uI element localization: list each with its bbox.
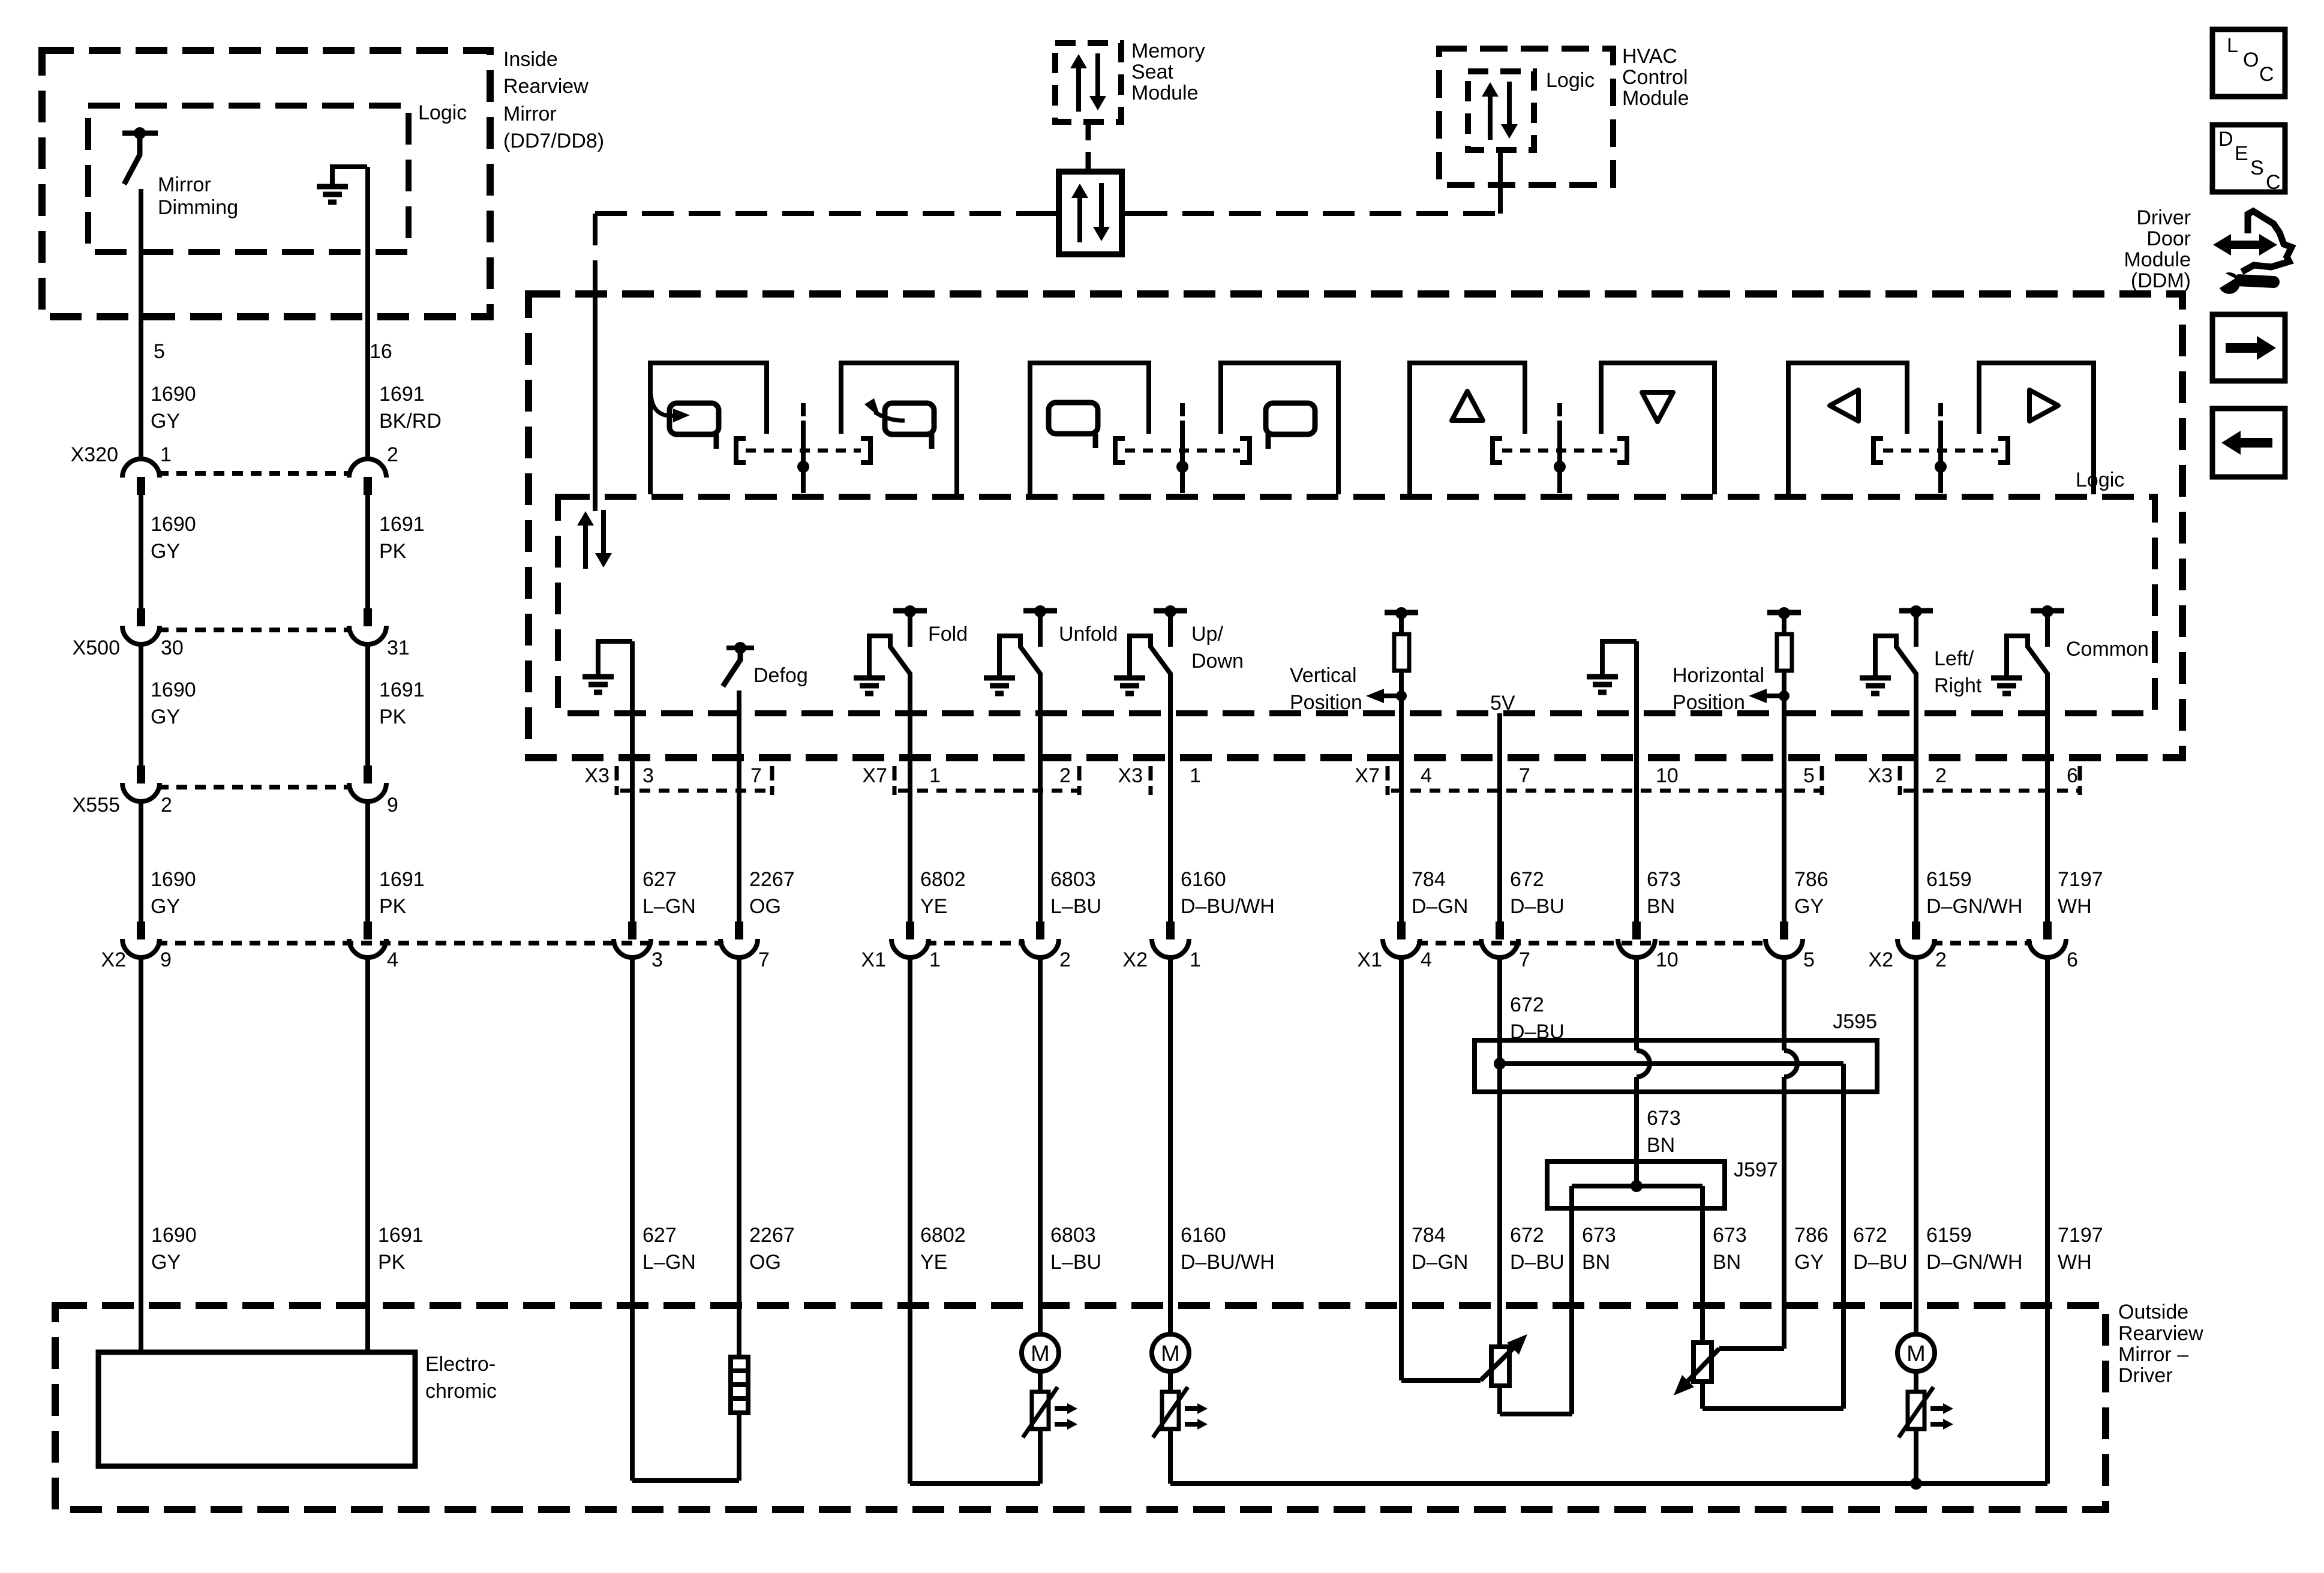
svg-text:2: 2 [1059, 948, 1071, 971]
svg-text:X7: X7 [862, 764, 887, 787]
connector X320 body (dotted) [158, 471, 351, 476]
svg-text:X1: X1 [1357, 948, 1382, 971]
inner logic box of DDM [558, 497, 2155, 713]
module box: Driver Door Module (DDM) [529, 294, 2182, 758]
module box: Inside Rearview Mirror (DD7/DD8) [42, 50, 490, 317]
ground symbol in DDM logic (627 return) [598, 641, 632, 677]
connector X1 terminal pin 1 [906, 921, 914, 939]
connector X2 terminal pin 1 [1166, 921, 1175, 939]
svg-text:2: 2 [387, 443, 398, 466]
svg-text:Common: Common [2066, 638, 2149, 661]
svg-text:9: 9 [160, 948, 172, 971]
svg-text:GY: GY [151, 1251, 181, 1274]
svg-text:6802: 6802 [920, 1224, 966, 1247]
serial data arrows inside connector box [1077, 196, 1082, 242]
svg-text:1690: 1690 [151, 1224, 197, 1247]
ground symbol inside IRM logic [332, 167, 367, 187]
connector X500 terminal pin 31 [364, 608, 372, 626]
svg-text:2: 2 [1935, 764, 1947, 787]
wire: 6803 unfold to X7 pin 2 [1038, 673, 1043, 923]
connector X1 body dotted (pins 4-7-10-5) [1417, 941, 1768, 945]
connector X555 terminal pin 9 [364, 766, 372, 784]
wire: serial data bus (dashed) memory seat to HVAC to DDM [595, 211, 1045, 216]
svg-text:6160: 6160 [1181, 1224, 1226, 1247]
wire: 627 from DDM logic ground to X3 pin 3 [630, 641, 635, 923]
node: junction of 6159 motor branch on common bus [1910, 1478, 1922, 1490]
svg-text:786: 786 [1794, 1224, 1828, 1247]
svg-text:WH: WH [2058, 895, 2092, 918]
svg-text:GY: GY [1794, 895, 1824, 918]
svg-text:Module: Module [1131, 82, 1199, 104]
wire: serial data drop from memory seat module (dashed) [1086, 122, 1091, 172]
connector X1 terminal pin 2 [1036, 921, 1044, 939]
svg-text:Unfold: Unfold [1059, 623, 1118, 646]
wire: 1691 PK to outside mirror [365, 959, 370, 1352]
svg-text:(DDM): (DDM) [2131, 269, 2191, 292]
icon box: right arrow [2212, 314, 2285, 381]
module box: HVAC Control Module [1439, 49, 1613, 185]
svg-text:C: C [2266, 171, 2281, 194]
svg-text:D–BU: D–BU [1510, 1251, 1565, 1274]
svg-text:(DD7/DD8): (DD7/DD8) [503, 130, 604, 152]
svg-text:BN: BN [1713, 1251, 1741, 1274]
wire: J595 output 672 D-BU down to horizontal pot low side [1841, 1064, 1846, 1409]
svg-text:E: E [2235, 142, 2248, 165]
potentiometer: horizontal position sensor [1694, 1343, 1712, 1382]
svg-text:OG: OG [749, 1251, 781, 1274]
svg-text:1691: 1691 [378, 1224, 424, 1247]
svg-text:6: 6 [2067, 948, 2078, 971]
svg-text:D: D [2218, 128, 2233, 151]
wire: 2267 defog output to X3 pin 7 [737, 691, 741, 923]
connector X7 (sensors) bracket [1386, 766, 1390, 795]
serial data arrows inside HVAC logic [1488, 94, 1493, 140]
svg-text:Right: Right [1934, 674, 1982, 697]
icon: down triangle (cell 6) [1642, 392, 1673, 422]
switch: Defog contact bar [726, 646, 754, 650]
svg-text:J595: J595 [1833, 1010, 1877, 1033]
wire: 673 BN from X1-10 to J597 (hops J595 bus) [1634, 959, 1639, 1050]
svg-text:chromic: chromic [425, 1380, 497, 1403]
connector X2 body dotted (pins 9-4-3-7) [157, 941, 723, 945]
splice pack J597 [1547, 1161, 1725, 1208]
switch cell: left mirror select switch cell [1030, 363, 1149, 494]
icon box: LOC [2212, 29, 2285, 97]
svg-text:Mirror: Mirror [158, 173, 211, 196]
switch cell: mirror fold switch cell (left mirror, fold arrow) [650, 363, 767, 494]
wire: left/right thermistor to common bus junction [1914, 1429, 1918, 1484]
svg-text:Mirror –: Mirror – [2118, 1343, 2188, 1366]
svg-text:9: 9 [387, 794, 398, 816]
icon: mirror glass left (cell 3) [1049, 403, 1098, 434]
wire: 786 GY to horizontal position wiper (hops J595 bus) [1782, 959, 1786, 1050]
wire: 1690 GY between X555 and X2 [139, 803, 143, 923]
connector X3 (right) body dotted [1903, 789, 2078, 793]
wire: 6803 L-BU to fold motor [1038, 959, 1043, 1334]
switch: Up/Down arm with ground [1130, 636, 1170, 678]
electrochromic mirror element [98, 1352, 415, 1466]
wire: 672 5V reference from DDM logic to X7 pin 7 [1497, 713, 1502, 923]
svg-text:L–GN: L–GN [642, 1251, 696, 1274]
wire: 2267 OG to defogger grid [737, 959, 741, 1357]
svg-text:673: 673 [1713, 1224, 1747, 1247]
wire: J595 internal bus [1500, 1061, 1843, 1066]
connector X3 (up/down) bracket [1149, 766, 1153, 795]
svg-text:1691: 1691 [379, 679, 425, 701]
module box: Outside Rearview Mirror - Driver [55, 1305, 2106, 1509]
svg-text:D–BU/WH: D–BU/WH [1181, 1251, 1275, 1274]
connector X2 terminal pin 6 [2043, 921, 2052, 939]
svg-text:GY: GY [151, 540, 180, 563]
svg-text:6159: 6159 [1926, 1224, 1972, 1247]
svg-text:Module: Module [1622, 87, 1689, 110]
wire: mirror dimming output, IRM pin 5 [139, 189, 143, 459]
sensor feed: vertical position fixed contact [1385, 610, 1418, 616]
connector X2 terminal pin 3 [628, 921, 636, 939]
inner logic box of HVAC control module [1468, 71, 1534, 150]
ground symbol in DDM logic (673 return) [1602, 641, 1637, 677]
svg-text:GY: GY [151, 706, 180, 728]
switch cell: mirror right switch cell [1979, 363, 2094, 494]
wire: 672 D-BU from X1-7 through J595 to vertical pot [1497, 959, 1502, 1347]
svg-text:Door: Door [2146, 227, 2191, 250]
svg-text:Left/: Left/ [1934, 647, 1974, 670]
connector X3 (left) bracket [615, 766, 619, 795]
svg-text:786: 786 [1794, 868, 1828, 891]
svg-text:Memory: Memory [1131, 40, 1205, 62]
svg-text:M: M [1161, 1341, 1180, 1367]
svg-text:31: 31 [387, 637, 410, 659]
svg-text:4: 4 [1421, 764, 1432, 787]
wire: 1691 PK between X555 and X2 [365, 803, 370, 923]
svg-text:Logic: Logic [2076, 469, 2124, 491]
wire: 6159 D-GN/WH to left/right motor [1914, 959, 1918, 1334]
wire: 6802 fold to X7 pin 1 [908, 673, 912, 923]
svg-text:6803: 6803 [1050, 1224, 1096, 1247]
wire: 1690 GY between X320 and X500 [139, 495, 143, 610]
wire: IRM ground return, pin 16 [365, 167, 370, 459]
svg-text:7197: 7197 [2058, 1224, 2103, 1247]
svg-text:L–GN: L–GN [642, 895, 696, 918]
svg-text:D–GN: D–GN [1412, 895, 1468, 918]
connector X3 (right) bracket [1898, 766, 1902, 795]
resistor: vertical position sense resistor [1394, 634, 1409, 671]
svg-text:6159: 6159 [1926, 868, 1972, 891]
svg-text:GY: GY [1794, 1251, 1824, 1274]
svg-text:2: 2 [161, 794, 172, 816]
svg-text:D–GN/WH: D–GN/WH [1926, 895, 2023, 918]
svg-text:X2: X2 [1122, 948, 1148, 971]
svg-text:5: 5 [1803, 764, 1815, 787]
wire: fold motor bottom link [910, 1481, 1040, 1486]
wire: 784 vertical position to X7 pin 4 [1399, 671, 1404, 923]
svg-text:D–BU/WH: D–BU/WH [1181, 895, 1275, 918]
svg-text:HVAC: HVAC [1622, 45, 1677, 68]
node: 672 junction inside J595 [1494, 1058, 1506, 1070]
svg-text:Outside: Outside [2118, 1301, 2188, 1323]
svg-text:X3: X3 [1867, 764, 1893, 787]
connector X1 terminal pin 7 [1496, 921, 1504, 939]
wire: up/down motor to thermistor [1168, 1371, 1173, 1392]
svg-text:16: 16 [370, 340, 392, 363]
svg-text:1691: 1691 [379, 868, 425, 891]
svg-text:O: O [2243, 49, 2259, 71]
connector X320 terminal pin 1 [122, 459, 160, 478]
serial data arrows at DDM logic input [583, 523, 588, 569]
svg-text:673: 673 [1647, 868, 1681, 891]
svg-text:BN: BN [1647, 1134, 1675, 1157]
wire: fold motor to thermistor [1038, 1371, 1043, 1392]
thermistor: up/down motor PTC [1162, 1392, 1179, 1429]
svg-text:M: M [1906, 1341, 1926, 1367]
connector X7 body dotted [898, 789, 1077, 793]
svg-text:2: 2 [1935, 948, 1947, 971]
svg-text:7: 7 [1519, 948, 1530, 971]
svg-text:672: 672 [1510, 1224, 1544, 1247]
svg-text:3: 3 [651, 948, 663, 971]
switch: Mirror Dimming contact bar [122, 131, 158, 136]
wire: J597 internal bus [1572, 1184, 1703, 1188]
svg-text:S: S [2250, 157, 2264, 179]
wire: defogger grid to bottom link [737, 1413, 741, 1481]
svg-text:672: 672 [1853, 1224, 1887, 1247]
wire: 6802 YE to fold motor return [908, 959, 912, 1484]
svg-text:5: 5 [1803, 948, 1815, 971]
wiper arrow: horizontal position sensor [1683, 1349, 1719, 1386]
svg-text:X555: X555 [73, 794, 120, 816]
connector X7 bracket [893, 766, 897, 795]
svg-text:D–GN: D–GN [1412, 1251, 1468, 1274]
svg-text:Position: Position [1673, 691, 1745, 714]
svg-text:Defog: Defog [753, 664, 808, 687]
connector X2 terminal pin 4 [364, 921, 372, 939]
motor: mirror up/down motor [1152, 1334, 1189, 1371]
svg-text:1: 1 [1190, 948, 1201, 971]
serial data arrows inside memory seat module [1076, 66, 1081, 112]
svg-text:Rearview: Rearview [2118, 1322, 2203, 1345]
svg-text:627: 627 [642, 1224, 677, 1247]
switch: Common fixed contact [2031, 608, 2064, 614]
svg-text:10: 10 [1656, 764, 1679, 787]
svg-text:7: 7 [750, 764, 762, 787]
svg-text:1690: 1690 [151, 868, 196, 891]
wire: fold thermistor to bottom link [1038, 1429, 1043, 1484]
wire: 673 BN right branch to horizontal pot high side [1700, 1186, 1705, 1343]
svg-text:L: L [2227, 34, 2238, 57]
svg-text:X1: X1 [861, 948, 886, 971]
svg-text:X320: X320 [71, 443, 118, 466]
connector X555 body (dotted) [158, 785, 351, 789]
thermistor: left/right motor PTC [1908, 1392, 1924, 1429]
wire: serial data drop into DDM (dashed) [593, 214, 597, 293]
svg-text:3: 3 [642, 764, 654, 787]
svg-text:784: 784 [1412, 1224, 1446, 1247]
svg-text:4: 4 [1421, 948, 1432, 971]
wire: 627 L-GN to outside mirror [630, 959, 635, 1481]
node: horizontal position signal tap [1779, 691, 1789, 701]
connector X1 terminal pin 4 [1397, 921, 1406, 939]
svg-text:Mirror: Mirror [503, 103, 557, 125]
motor: mirror left/right motor [1897, 1334, 1935, 1371]
sensor feed: horizontal position fixed contact [1767, 610, 1801, 616]
svg-text:5V: 5V [1490, 692, 1515, 715]
svg-text:Electro-: Electro- [425, 1353, 496, 1376]
icon: driver door module pictograph (door with arrow and wrench) [2213, 234, 2277, 256]
svg-text:7: 7 [1519, 764, 1530, 787]
switch cell: mirror up switch cell [1410, 363, 1525, 494]
wire: 6160 D-BU/WH to up/down motor [1168, 959, 1173, 1334]
svg-text:Inside: Inside [503, 48, 558, 71]
splice pack J595 [1475, 1040, 1877, 1092]
svg-text:GY: GY [151, 895, 180, 918]
wire: 673 from DDM logic ground to X7 pin 10 [1634, 641, 1639, 923]
svg-text:784: 784 [1412, 868, 1446, 891]
svg-text:30: 30 [161, 637, 184, 659]
svg-text:BN: BN [1647, 895, 1675, 918]
svg-text:BK/RD: BK/RD [379, 410, 442, 433]
icon box: left arrow [2212, 409, 2285, 477]
connector X2 terminal pin 7 [735, 921, 743, 939]
svg-text:7: 7 [758, 948, 770, 971]
motor: mirror fold motor [1022, 1334, 1059, 1371]
svg-text:D–BU: D–BU [1853, 1251, 1908, 1274]
icon: mirror glass with fold arrow (cell 1) [669, 403, 719, 434]
switch: Common arm with ground [2007, 636, 2047, 678]
svg-text:X7: X7 [1355, 764, 1380, 787]
icon: up triangle (cell 5) [1452, 391, 1483, 421]
svg-text:Up/: Up/ [1191, 623, 1223, 646]
connector X2 body dotted (pins 2-6) [1932, 941, 2032, 945]
svg-text:Position: Position [1290, 691, 1362, 714]
switch: Left/Right fixed contact [1899, 608, 1933, 614]
wire: 6160 up/down to X3 pin 1 [1168, 673, 1173, 923]
wire: left/right motor to thermistor [1914, 1371, 1918, 1392]
svg-text:D–BU: D–BU [1510, 895, 1565, 918]
switch contact between cells 1-2 (fold/unfold rocker) [736, 439, 746, 463]
wire: 1690 GY to outside mirror [139, 959, 143, 1352]
wire: vertical pot low side to 673 branch [1497, 1386, 1502, 1414]
wire: 784 D-GN to vertical position wiper [1399, 959, 1404, 1380]
svg-text:2267: 2267 [749, 868, 795, 891]
svg-text:1691: 1691 [379, 383, 425, 406]
potentiometer: vertical position sensor [1491, 1347, 1509, 1386]
icon: right triangle (cell 8) [2029, 390, 2058, 421]
svg-text:J597: J597 [1734, 1158, 1778, 1181]
svg-text:7197: 7197 [2058, 868, 2103, 891]
svg-text:1690: 1690 [151, 383, 196, 406]
svg-text:673: 673 [1647, 1107, 1681, 1130]
switch: Unfold fixed contact [1023, 608, 1057, 614]
svg-text:X3: X3 [584, 764, 609, 787]
switch: Fold arm with ground [869, 636, 910, 678]
svg-text:1: 1 [1190, 764, 1201, 787]
wire: serial data into DDM logic [593, 294, 597, 511]
switch: Unfold arm with ground [999, 636, 1040, 678]
wire: 7197 common to X3 pin 6 [2045, 673, 2050, 923]
switch contact between cells 7-8 (left/right rocker) [1873, 439, 1883, 463]
switch: Mirror Dimming arm [124, 137, 140, 184]
svg-text:Driver: Driver [2136, 206, 2191, 229]
connector X1 terminal pin 5 [1780, 921, 1788, 939]
svg-text:Rearview: Rearview [503, 75, 588, 98]
svg-text:Horizontal: Horizontal [1673, 664, 1764, 687]
svg-text:1: 1 [160, 443, 172, 466]
svg-text:X500: X500 [73, 637, 120, 659]
svg-text:2267: 2267 [749, 1224, 795, 1247]
svg-text:GY: GY [151, 410, 180, 433]
svg-text:6802: 6802 [920, 868, 966, 891]
switch contact between cells 3-4 (mirror select rocker) [1115, 439, 1125, 463]
svg-text:D–GN/WH: D–GN/WH [1926, 1251, 2023, 1274]
svg-text:X2: X2 [1868, 948, 1893, 971]
wire: 7197 WH to common bus [2045, 959, 2050, 1484]
switch: Mirror Dimming contact dot [134, 127, 146, 139]
svg-text:L–BU: L–BU [1050, 1251, 1101, 1274]
svg-text:Fold: Fold [928, 623, 968, 646]
wire: 1691 PK between X320 and X500 [365, 495, 370, 610]
connector X500 terminal pin 30 [137, 608, 145, 626]
connector X1 body dotted (pins 1-2) [926, 941, 1025, 945]
switch: Left/Right arm with ground [1875, 636, 1916, 678]
connector X500 body (dotted) [158, 628, 351, 632]
connector X7 (sensors) body dotted [1391, 789, 1820, 793]
svg-text:C: C [2259, 63, 2274, 86]
connector X3 (right) right bracket [2078, 766, 2082, 795]
svg-text:X3: X3 [1118, 764, 1143, 787]
switch contact between cells 5-6 (up/down rocker) [1493, 439, 1502, 463]
svg-text:BN: BN [1582, 1251, 1610, 1274]
connector X7 (sensors) right bracket [1820, 766, 1824, 795]
svg-text:YE: YE [920, 895, 947, 918]
wire: mirror motor common bus [1170, 1481, 2047, 1486]
wire: 673 BN left branch to vertical pot low side [1569, 1186, 1574, 1414]
svg-text:Seat: Seat [1131, 61, 1173, 83]
svg-text:Logic: Logic [418, 101, 467, 124]
svg-text:Dimming: Dimming [158, 196, 238, 219]
svg-text:Logic: Logic [1546, 69, 1595, 92]
connector X7 right bracket [1077, 766, 1082, 795]
svg-text:1690: 1690 [151, 679, 196, 701]
arrow: vertical position signal to label [1373, 694, 1401, 698]
svg-text:WH: WH [2058, 1251, 2092, 1274]
svg-text:10: 10 [1656, 948, 1679, 971]
switch: Defog arm [723, 652, 740, 686]
wire: 1690 GY between X500 and X555 [139, 646, 143, 767]
defogger grid element (heated mirror) [731, 1357, 748, 1413]
connector X2 terminal pin 2 [1912, 921, 1920, 939]
svg-text:Module: Module [2124, 248, 2191, 271]
wire: 1691 PK between X500 and X555 [365, 646, 370, 767]
svg-text:Vertical: Vertical [1290, 664, 1357, 687]
svg-text:YE: YE [920, 1251, 947, 1274]
svg-text:627: 627 [642, 868, 677, 891]
inner logic box of inside rearview mirror [88, 106, 409, 252]
wire: serial data drop from HVAC logic [1498, 150, 1503, 204]
svg-text:M: M [1031, 1341, 1050, 1367]
svg-text:Down: Down [1191, 650, 1244, 673]
wire: horizontal pot low side link [1700, 1382, 1705, 1409]
svg-text:1: 1 [929, 764, 941, 787]
svg-text:6160: 6160 [1181, 868, 1226, 891]
svg-text:Control: Control [1622, 66, 1688, 89]
svg-text:1691: 1691 [379, 513, 425, 536]
svg-text:L–BU: L–BU [1050, 895, 1101, 918]
connector X3 (left) right bracket [770, 766, 774, 795]
in-line connector box on serial data line [1059, 172, 1122, 254]
switch: Fold fixed contact [893, 608, 927, 614]
svg-text:5: 5 [154, 340, 165, 363]
arrow: horizontal position signal to label [1756, 694, 1784, 698]
